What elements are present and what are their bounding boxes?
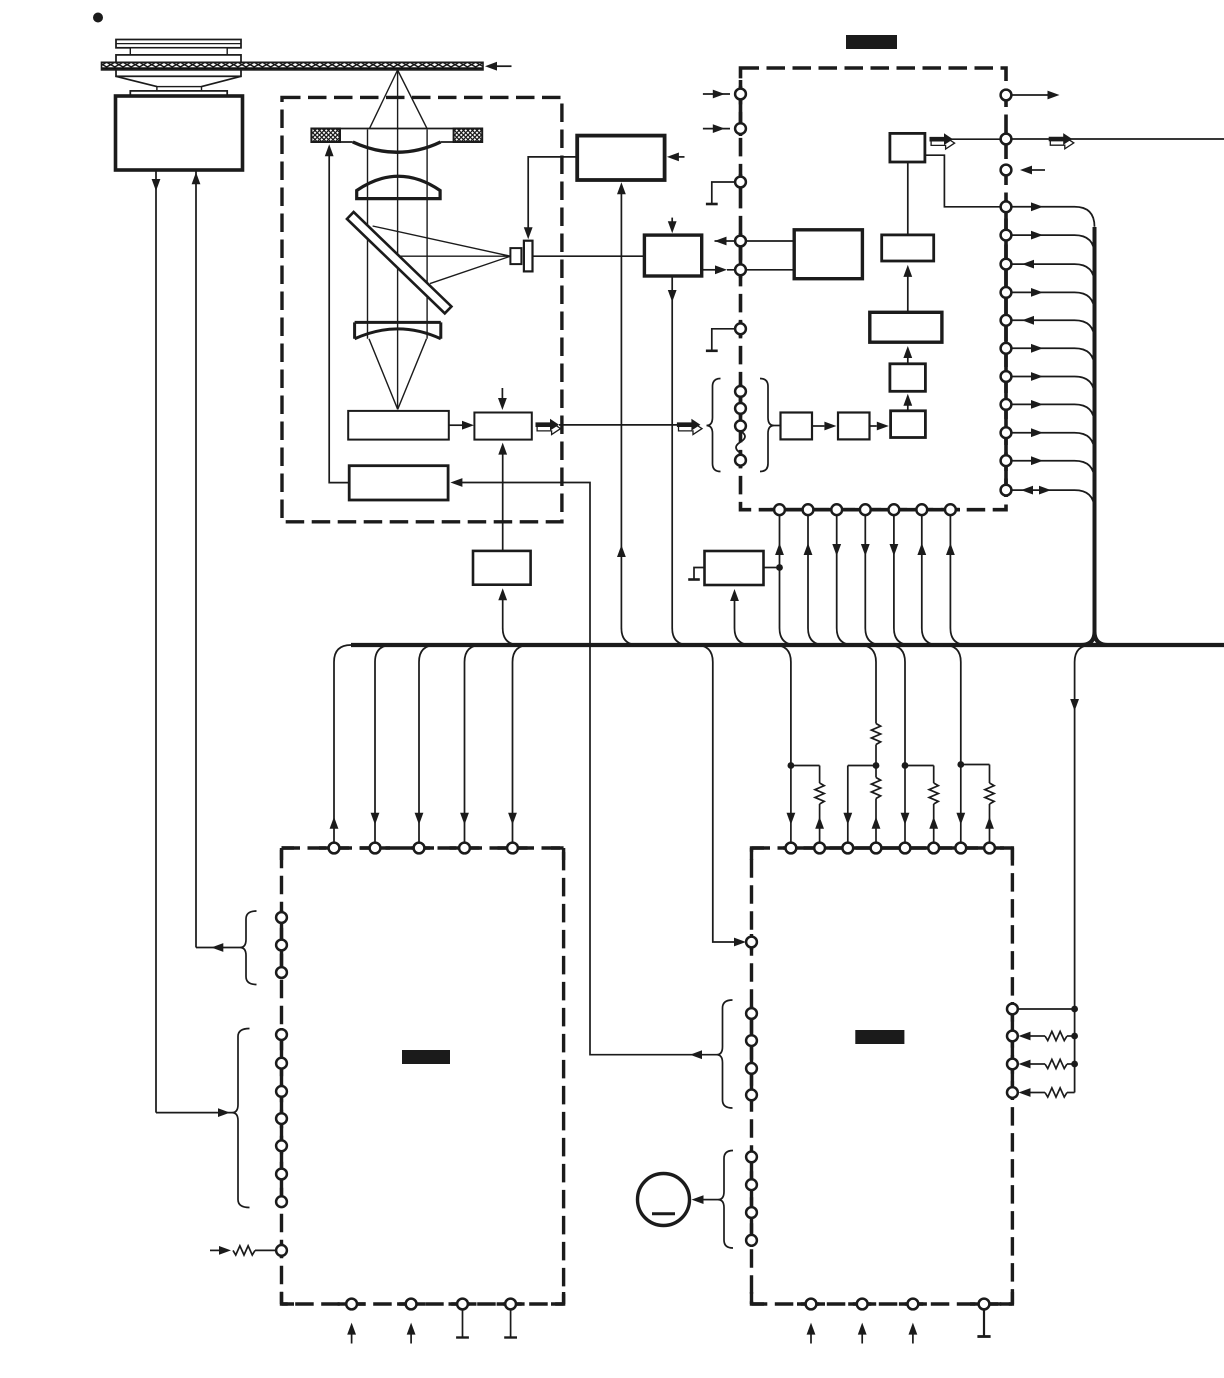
U1 right pin2 line out (to page edge) [1011, 138, 1224, 140]
bullet marker [93, 13, 103, 23]
bus trunk from U1 right side (thick vertical) [1081, 227, 1108, 645]
wire bus to R-bank line4 [944, 645, 961, 662]
wire bus to R-bank line2 [859, 645, 876, 662]
U1 RF output brace right [760, 379, 774, 472]
U2 bottom pin4 ground stub [510, 1309, 512, 1337]
U2 top pins [329, 843, 340, 854]
APC amplifier [474, 413, 531, 440]
wire coil drive to lens actuator [329, 152, 349, 483]
junction dot line4 [957, 761, 964, 768]
wire box3 to boxB [907, 402, 909, 411]
photodetector plate [524, 241, 533, 272]
wire photodetector output (to EFM comparator) [533, 255, 645, 257]
U3 ladder pin1 wire [1017, 1008, 1074, 1010]
concave lens [355, 322, 441, 338]
U3 driver IC (dashed box) [752, 848, 1013, 1304]
wire EFM to pin to PLL (lower) [702, 269, 715, 271]
wire spindle motor feedback (down to U2 lower brace) [155, 170, 157, 1113]
ground at mute box [694, 568, 705, 580]
RF open arrow at U1 brace [679, 423, 703, 435]
U1 bottom pin wire x=779.5 [779, 514, 781, 628]
wire bus to U2 top pin x=419 [419, 645, 436, 662]
stub arrow into EFM top [671, 218, 673, 226]
U1 right pin wire y=206.8 [1006, 207, 1095, 227]
junction dot line3 [902, 762, 909, 769]
wire boxE to right pin2 [950, 138, 1006, 140]
U1 bottom pin wire x=950.4 [949, 514, 951, 628]
U3 ladder pin3 resistor [1019, 1060, 1031, 1069]
U3 left edge solid segments [750, 934, 753, 950]
U1 right pin3 stub arrow in [1032, 169, 1045, 171]
stub arrow into RF amp [677, 156, 685, 158]
wire boxE side to right pin4 [925, 155, 1006, 207]
disc (crosshatched cross-section) [102, 62, 484, 70]
wire bus to U2 top pin x=334 [334, 645, 351, 662]
U1 right pin2 open arrow [1050, 137, 1074, 149]
U1 left pins [735, 89, 746, 100]
junction dot line2 [873, 762, 880, 769]
collimator lens [357, 176, 440, 198]
U1 bottom edge solid segment [770, 508, 960, 512]
U2 bottom pin3 ground stub [462, 1309, 464, 1337]
laser beam (disc to objective lens) [370, 70, 428, 129]
U2 left pins [276, 912, 287, 923]
wire box1 to box2 [812, 425, 824, 427]
wire mute box feed from bus [734, 597, 736, 628]
junction dot line1 [788, 762, 795, 769]
RF amp box [577, 136, 664, 180]
ground at U1 left pin3 [712, 182, 736, 204]
resistor R on line2 upper [871, 724, 880, 745]
branch line3 to pin6 [905, 766, 934, 784]
wire driver box feed from bus [502, 597, 504, 628]
U1 right pins [1001, 90, 1012, 101]
U3 bottom pins [806, 1299, 817, 1310]
line4 to pin7 [960, 765, 962, 844]
stub arrow into U1 left pin2 [703, 128, 730, 130]
sled motor M2 [638, 1174, 690, 1226]
photodetector block [510, 248, 521, 264]
line1 to pin1 [790, 766, 792, 844]
branch line4 to pin8 [961, 765, 990, 784]
wire box2 to box3 [870, 425, 877, 427]
wire boxD to boxE [907, 162, 909, 235]
wire photodetector bias (from RF amp box) [528, 157, 577, 232]
wire bus to U3 left pin (single) [696, 645, 713, 662]
U1 right pin wire y=320.3 [1006, 320, 1095, 340]
U1 bottom pin wire x=921.8 [921, 514, 923, 628]
wire bus to U2 top pin x=464.5 [465, 645, 482, 662]
objective lens actuator left hatch [311, 129, 340, 143]
chain box1 [781, 413, 813, 440]
driver box below pickup [473, 551, 531, 585]
U2 left edge solid segments [280, 910, 283, 979]
U3 bottom pin stubs [797, 1302, 825, 1305]
line2 resistor lower to pin4 [875, 766, 877, 778]
wire bus down right side (to U3 ladder) [1075, 645, 1092, 662]
U1 right pin wire y=432.7 [1006, 433, 1095, 453]
stub arrow into U1 left pin1 [703, 93, 730, 95]
wire APC bias (from driver box below) [502, 451, 504, 551]
U2 lower brace [232, 1029, 250, 1208]
U1 bottom pins [774, 504, 785, 515]
junction dot mute box [776, 564, 783, 571]
beam splitter [347, 212, 451, 313]
branch line1 to pin2 [791, 766, 820, 784]
mute box [705, 551, 764, 585]
laser diode LD [348, 411, 449, 440]
U2 corners solid [282, 848, 564, 1304]
wire bus to R-bank line1 [774, 645, 791, 662]
objective lens [340, 141, 454, 143]
wire boxC to boxD [907, 273, 909, 312]
junction dot ladder3 [1071, 1061, 1078, 1068]
U1 right edge solid segment [1004, 200, 1008, 497]
beam to photodetector [373, 226, 511, 284]
U1 bottom pin wire x=865.3 [864, 514, 866, 628]
U1 bottom pin wire x=808 [807, 514, 809, 628]
wire U3 to focus coil driver [462, 483, 717, 1055]
wire mute box to junction [764, 567, 780, 569]
wire bus to R-bank line3 [888, 645, 905, 662]
chain boxB [890, 364, 926, 392]
bus (main horizontal signal trunk) [351, 643, 1224, 647]
U2 servo IC (dashed box) [282, 848, 564, 1304]
U2 label (redacted) [402, 1050, 450, 1064]
U1 signal processor IC (dashed box) [741, 68, 1007, 510]
U2 top edge pin stubs [319, 846, 349, 849]
U2 upper brace [240, 911, 257, 985]
U2 bottom pin1 arrow [351, 1331, 353, 1344]
PLL box [794, 230, 862, 279]
chain box3 [891, 411, 926, 438]
U1 right pin wire y=460.7 [1006, 461, 1095, 481]
boxE output open arrow [931, 137, 955, 149]
disc clamper hub [130, 48, 227, 55]
wire brace to sled motor [702, 1199, 718, 1201]
U1 label (redacted) [846, 35, 897, 49]
U1 RF input brace left [707, 379, 721, 472]
U3 upper-left brace [717, 1000, 733, 1108]
wire EFM output to bus [671, 276, 673, 628]
U1 left edge pin-omission squiggle [736, 431, 745, 453]
U1 right pin wire y=404.4 [1006, 404, 1095, 424]
laser beam (collimated verticals) [367, 130, 369, 339]
wire boxB to boxC [907, 354, 909, 363]
motor shaft plate [130, 91, 227, 96]
U2 bottom pin2 arrow [410, 1331, 412, 1344]
wire brace to box1 [774, 425, 781, 427]
U1 right pin wire y=376.5 [1006, 377, 1095, 397]
junction dot ladder2 [1071, 1033, 1078, 1040]
U1 right pin wire y=235.1 [1006, 235, 1095, 255]
wire spindle motor drive (from U2 upper brace) [195, 170, 197, 948]
U2 bottom pin stubs [338, 1302, 366, 1305]
U3 label (redacted) [855, 1030, 904, 1044]
wire PLL to pin to EFM (upper) [715, 240, 795, 242]
U3 left pins [746, 937, 757, 948]
U3 right pins [1007, 1004, 1018, 1015]
wire bus to U2 top pin x=512.5 [513, 645, 530, 662]
EFM comparator box [644, 235, 701, 276]
U1 right pin wire y=348.3 [1006, 348, 1095, 368]
U3 bottom pin2 arrow [861, 1331, 863, 1344]
RF signal line to U1 [559, 424, 678, 426]
wire RF amp to bus [620, 191, 622, 629]
U1 bottom pin wire x=836.7 [836, 514, 838, 628]
U1 right pin wire y=264.1 [1006, 264, 1095, 284]
U3 bottom pin3 arrow [912, 1331, 914, 1344]
U3 top edge solid segment [783, 846, 996, 849]
resistor into U2 left pin (bottom) [210, 1249, 220, 1251]
turntable cone [116, 76, 241, 86]
wire LD to APC [449, 424, 463, 426]
chain boxC [870, 312, 942, 342]
optical pickup unit (dashed box) [282, 97, 562, 521]
wire bus to U2 top pin x=375 [375, 645, 392, 662]
U3 ladder pin2 resistor [1019, 1032, 1031, 1041]
U3 lower-left brace [718, 1151, 733, 1249]
stub arrow into APC top [501, 388, 503, 401]
U3 corners solid [752, 848, 1013, 1304]
U3 bottom pin4 ground stub [983, 1309, 985, 1336]
line3 to pin5 [904, 766, 906, 844]
laser beam axis [397, 70, 399, 409]
spindle motor M1 [116, 96, 243, 170]
U3 ladder pin4 resistor [1019, 1088, 1031, 1097]
chain boxE [890, 133, 925, 162]
disc clamper top plate [116, 40, 241, 48]
U1 right pin14 wire (bidirectional) [1006, 490, 1095, 510]
chain boxD [882, 235, 934, 261]
U3 right edge solid segment [1011, 1002, 1014, 1100]
ground at U1 left pin6 [712, 329, 736, 351]
chain box2 [838, 413, 870, 440]
focus/tracking coil driver box [349, 466, 448, 500]
U2 bottom pins [346, 1299, 357, 1310]
turntable body [116, 55, 241, 76]
arrow into disc edge [497, 65, 512, 67]
junction dot ladder1 [1071, 1006, 1078, 1013]
U1 bottom pin wire x=893.9 [893, 514, 895, 628]
U1 right pin1 stub arrow out [1011, 94, 1048, 96]
objective lens actuator right hatch [454, 129, 483, 143]
U3 bottom pin1 arrow [810, 1331, 812, 1344]
branch line2 to pin3 [848, 766, 876, 844]
U1 left edge solid segments [739, 80, 743, 136]
RF open arrow at APC [537, 423, 561, 435]
U1 right pin wire y=292.4 [1006, 292, 1095, 312]
laser beam (converging to laser diode) [369, 339, 427, 410]
U3 top pins [786, 843, 797, 854]
